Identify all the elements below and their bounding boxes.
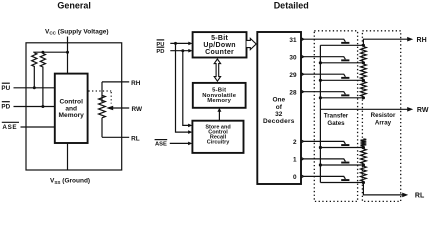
block One of 32 Decoders U4 bbox=[257, 32, 301, 184]
resistor array segment R1 bbox=[361, 47, 367, 62]
svg-text:RW: RW bbox=[132, 106, 143, 113]
transfer gate Q2 bbox=[341, 144, 349, 146]
svg-text:ASE: ASE bbox=[2, 124, 17, 131]
wire RW right bbox=[320, 108, 408, 110]
node bus row 28 bbox=[319, 96, 322, 99]
svg-text:0: 0 bbox=[293, 174, 297, 181]
wiper arrow bbox=[106, 106, 113, 111]
pin stub 1 bbox=[301, 157, 304, 160]
node tap 0 chain bbox=[362, 181, 365, 184]
svg-text:RL: RL bbox=[415, 193, 425, 200]
pin stub 30 bbox=[301, 55, 304, 58]
svg-text:Gates: Gates bbox=[327, 120, 345, 127]
wire tap 2 bbox=[304, 141, 346, 144]
resistor array segment R6 bbox=[361, 166, 367, 181]
svg-text:One: One bbox=[272, 97, 285, 104]
potentiometer element bbox=[99, 82, 106, 137]
dotted box Resistor Array bbox=[362, 31, 400, 202]
wire tap 31 bbox=[304, 39, 346, 42]
transfer gate Q0 bbox=[341, 179, 349, 181]
wire PU to store bbox=[176, 43, 190, 132]
wire channel 29 bbox=[320, 79, 363, 81]
svg-text:Memory: Memory bbox=[59, 112, 85, 119]
resistor array segment R4 bbox=[361, 139, 367, 146]
transfer gate Q28 bbox=[341, 94, 349, 96]
svg-text:Detailed: Detailed bbox=[274, 1, 309, 11]
svg-text:PU: PU bbox=[1, 85, 10, 92]
block Store and Control Recall Circuitry U3 bbox=[192, 121, 243, 153]
svg-text:32: 32 bbox=[275, 111, 283, 118]
pin stub 31 bbox=[301, 38, 304, 41]
block Control and Memory bbox=[55, 74, 88, 143]
wire PD bbox=[14, 106, 55, 108]
svg-text:PD: PD bbox=[1, 104, 10, 111]
svg-text:Circuitry: Circuitry bbox=[207, 140, 231, 146]
arrow into memory bbox=[217, 108, 221, 112]
wire tap 28 bbox=[304, 92, 346, 95]
wire channel 1 bbox=[320, 164, 363, 166]
wire ground stem bbox=[67, 143, 69, 170]
resistor array segment R2 bbox=[361, 64, 367, 79]
node PD branch bbox=[181, 49, 184, 52]
wire PD to store bbox=[183, 51, 189, 126]
wire RL left bbox=[102, 136, 129, 138]
label PU with overline bbox=[1, 83, 10, 92]
svg-text:29: 29 bbox=[289, 72, 297, 79]
wire resistor feed bbox=[33, 51, 67, 53]
arrow RW bbox=[407, 107, 413, 112]
node bus row 1 bbox=[319, 163, 322, 166]
wire ASE bbox=[21, 126, 55, 128]
resistor array segment R3 bbox=[361, 82, 367, 97]
wire tap 1 bbox=[304, 159, 346, 162]
wire RH left bbox=[102, 81, 129, 83]
arrow PD into counter bbox=[188, 49, 192, 53]
transfer gate Q1 bbox=[341, 162, 349, 164]
label PD with overline bbox=[1, 102, 10, 111]
wiper bus vertical bbox=[319, 45, 321, 182]
pin stub 0 bbox=[301, 175, 304, 178]
resistor array segment R5 bbox=[361, 149, 367, 164]
node tap 31 chain bbox=[362, 44, 365, 47]
svg-text:28: 28 bbox=[289, 89, 297, 96]
svg-text:Memory: Memory bbox=[207, 98, 231, 104]
transfer gate Q30 bbox=[341, 59, 349, 61]
wire ASE right bbox=[170, 142, 189, 144]
node VCC-feed junction bbox=[66, 51, 69, 54]
label PD right with overline bbox=[156, 47, 164, 55]
pin stub 28 bbox=[301, 90, 304, 93]
label Resistor Array bbox=[371, 112, 396, 127]
wire channel 28 bbox=[320, 97, 363, 99]
svg-text:of: of bbox=[276, 104, 283, 111]
node tap 28 chain bbox=[362, 96, 365, 99]
arrow RH bbox=[407, 37, 413, 42]
block 5-Bit Nonvolatile Memory U2 bbox=[193, 83, 246, 108]
wire tap 0 bbox=[304, 176, 346, 179]
node tap 29 chain bbox=[362, 79, 365, 82]
wire channel 30 bbox=[320, 62, 363, 64]
node tap 2 chain bbox=[362, 146, 365, 149]
resistor pull-up R2 bbox=[40, 53, 45, 106]
wire channel 0 bbox=[320, 182, 363, 184]
svg-text:RH: RH bbox=[417, 37, 427, 44]
dotted wiper control wire bbox=[89, 91, 112, 104]
transfer gate Q31 bbox=[341, 42, 349, 44]
bus arrow counter to decoder (hollow) bbox=[247, 38, 257, 49]
arrow RL bbox=[402, 193, 408, 198]
label PU right with overline bbox=[156, 40, 164, 48]
svg-text:Transfer: Transfer bbox=[324, 113, 349, 120]
svg-text:Counter: Counter bbox=[205, 49, 234, 56]
svg-text:RH: RH bbox=[131, 80, 141, 87]
label ASE right with overline bbox=[155, 140, 168, 148]
wire RL right bbox=[363, 183, 403, 195]
svg-text:Array: Array bbox=[375, 120, 392, 127]
dotted box Transfer Gates bbox=[314, 31, 357, 202]
double arrow counter-memory (hollow) bbox=[214, 59, 220, 81]
svg-text:VSS (Ground): VSS (Ground) bbox=[50, 178, 90, 185]
node bus row 30 bbox=[319, 61, 322, 64]
wire RW left bbox=[113, 107, 130, 109]
arrow ASE into store bbox=[188, 142, 192, 146]
pin stub 2 bbox=[301, 140, 304, 143]
node PU-R1 junction bbox=[33, 86, 36, 89]
svg-text:1: 1 bbox=[293, 157, 297, 164]
wire channel 31 bbox=[320, 44, 363, 46]
wire tap 30 bbox=[304, 57, 346, 60]
svg-text:31: 31 bbox=[289, 37, 297, 44]
transfer gate Q29 bbox=[341, 77, 349, 79]
node tap 1 chain bbox=[362, 163, 365, 166]
wire PU bbox=[14, 87, 55, 89]
arrow PU into counter bbox=[188, 42, 192, 46]
wire tap 29 bbox=[304, 74, 346, 77]
svg-text:RL: RL bbox=[131, 135, 140, 142]
node bus row 2 bbox=[319, 146, 322, 149]
wire PD right bbox=[170, 50, 189, 52]
svg-text:VCC (Supply Voltage): VCC (Supply Voltage) bbox=[45, 29, 109, 36]
node PD-R2 junction bbox=[41, 105, 44, 108]
chip boundary box bbox=[26, 43, 122, 170]
label ASE with overline bbox=[2, 122, 19, 131]
wire store to memory bbox=[218, 112, 220, 121]
wire VCC stem bbox=[67, 37, 69, 74]
wire PU right bbox=[170, 42, 189, 44]
label Transfer Gates bbox=[324, 113, 349, 128]
svg-text:2: 2 bbox=[293, 139, 297, 146]
svg-text:PD: PD bbox=[156, 49, 164, 55]
resistor pull-up R1 bbox=[32, 53, 37, 88]
block 5-Bit Up/Down Counter U1 bbox=[193, 32, 247, 57]
pin stub 29 bbox=[301, 73, 304, 76]
arrow PU into store bbox=[188, 130, 192, 134]
wire channel 2 bbox=[320, 147, 363, 149]
node tap 30 chain bbox=[362, 61, 365, 64]
svg-text:RW: RW bbox=[417, 107, 429, 114]
svg-text:Resistor: Resistor bbox=[371, 112, 396, 119]
svg-text:ASE: ASE bbox=[155, 141, 167, 147]
node bus row 29 bbox=[319, 79, 322, 82]
svg-text:Decoders: Decoders bbox=[263, 118, 295, 125]
arrow PD into store bbox=[188, 124, 192, 128]
wire RH right bbox=[363, 39, 408, 45]
node PU branch bbox=[174, 42, 177, 45]
node feed-R2 junction bbox=[41, 51, 44, 54]
svg-text:30: 30 bbox=[289, 54, 297, 61]
svg-text:General: General bbox=[57, 1, 91, 11]
